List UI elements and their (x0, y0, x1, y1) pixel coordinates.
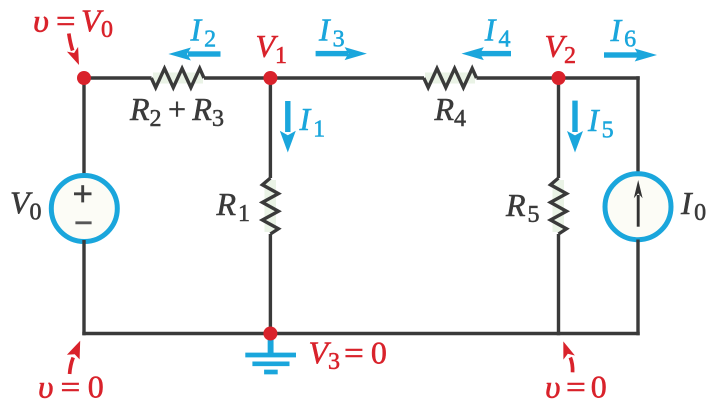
wire W15 right vertical lower: current source to bottom-right corner (636, 240, 639, 336)
node V1 (junction dot) (263, 71, 277, 85)
resistor R1 tint (265, 180, 277, 232)
wire W5 top segment: node V2 to top-right corner (559, 76, 640, 79)
ground symbol (245, 335, 296, 372)
red arrow to node v=V0 (67, 34, 79, 66)
wire W6 left vertical upper: node v=V0 to voltage source (82, 78, 85, 177)
node v=V0 (top-left junction dot) (77, 71, 91, 85)
current source I0 (605, 174, 671, 240)
wire W10 middle vertical upper: node V1 to resistor R1 (269, 78, 272, 178)
wire W4 top segment: R4 to node V2 (477, 76, 559, 79)
current arrow I6 (604, 49, 657, 62)
voltage source V0 (51, 176, 117, 242)
red arrow to bottom-left corner (67, 341, 80, 374)
svg-text:υ = 0: υ = 0 (545, 368, 607, 404)
wire W13 right-middle vertical lower: R5 to bottom wire (557, 234, 560, 335)
wire W12 right-middle vertical upper: node V2 to resistor R5 (557, 78, 560, 178)
wire W1 top segment: node v=V0 to resistor R2+R3 (84, 76, 152, 79)
node V3 (ground junction dot) (263, 327, 277, 341)
current arrow I5 (567, 101, 583, 153)
resistor R5 tint (553, 180, 565, 232)
resistor R4 (424, 68, 477, 87)
svg-text:R2 + R3: R2 + R3 (129, 91, 224, 132)
current arrow I4 (462, 47, 512, 60)
svg-text:V3 = 0: V3 = 0 (309, 334, 387, 375)
red arrow to bottom wire (right) (563, 341, 575, 372)
resistor R2+R3 (151, 68, 204, 87)
wire W11 middle vertical lower: R1 to ground node (269, 234, 272, 334)
resistor R4 tint (425, 73, 475, 84)
resistor R5 (551, 178, 567, 234)
wire W2 top segment: R2+R3 to node V1 (204, 76, 270, 79)
wire W14 right vertical upper: top-right corner to current source (636, 76, 639, 174)
wire W7 left vertical lower: voltage source to bottom-left corner (82, 240, 85, 335)
wire W9 bottom: ground node to bottom-right corner (270, 332, 639, 335)
node V2 (junction dot) (552, 71, 566, 85)
wire W3 top segment: node V1 to resistor R4 (270, 76, 424, 79)
current arrow I3 (316, 47, 367, 60)
resistor R1 (262, 178, 278, 234)
wire W8 bottom: bottom-left corner to ground node (82, 332, 270, 335)
current arrow I1 (280, 101, 296, 153)
resistor R2+R3 tint (153, 73, 203, 84)
current arrow I2 (168, 48, 220, 61)
